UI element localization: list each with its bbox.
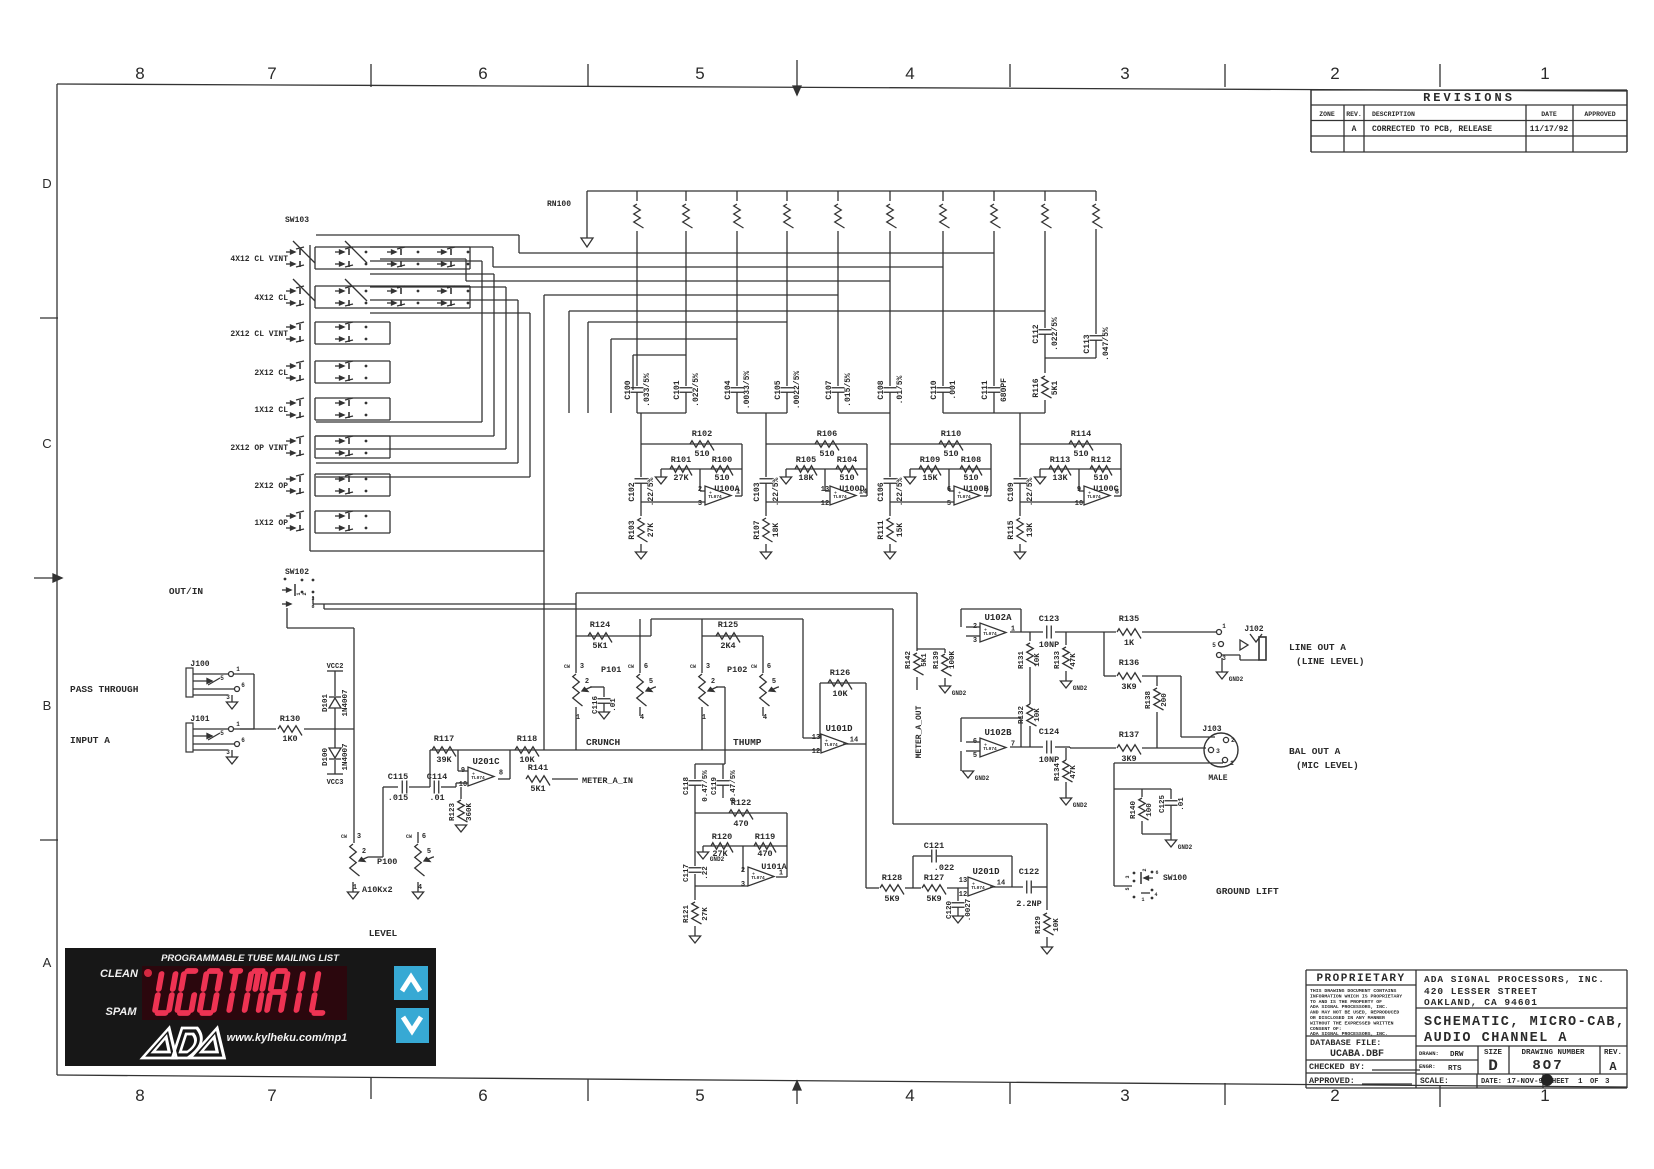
- svg-text:R141: R141: [528, 763, 548, 773]
- svg-text:3: 3: [1222, 655, 1226, 662]
- svg-text:R139: R139: [933, 651, 941, 670]
- svg-text:470: 470: [757, 849, 772, 859]
- svg-text:U100C: U100C: [1093, 484, 1119, 494]
- svg-text:1N4007: 1N4007: [342, 689, 350, 716]
- svg-text:510: 510: [714, 473, 729, 483]
- svg-text:2X12 CL: 2X12 CL: [254, 369, 288, 378]
- svg-text:(MIC LEVEL): (MIC LEVEL): [1296, 760, 1359, 771]
- svg-text:0.47/5%: 0.47/5%: [702, 770, 710, 802]
- svg-text:200: 200: [1161, 693, 1169, 707]
- svg-text:12: 12: [821, 500, 829, 508]
- svg-text:6: 6: [478, 1086, 487, 1105]
- svg-text:+: +: [834, 491, 837, 497]
- svg-text:+: +: [972, 882, 975, 888]
- svg-text:C105: C105: [774, 380, 783, 399]
- svg-text:2X12 OP: 2X12 OP: [254, 482, 288, 491]
- svg-text:R133: R133: [1054, 651, 1062, 670]
- svg-text:B: B: [43, 698, 52, 713]
- svg-text:HEET: HEET: [1552, 1078, 1569, 1086]
- svg-text:GND2: GND2: [975, 775, 990, 782]
- svg-text:27K: 27K: [702, 907, 710, 921]
- svg-text:4X12 CL VINT: 4X12 CL VINT: [230, 255, 288, 264]
- svg-text:CORRECTED TO PCB, RELEASE: CORRECTED TO PCB, RELEASE: [1372, 125, 1492, 134]
- svg-text:BAL OUT A: BAL OUT A: [1289, 746, 1341, 757]
- svg-text:.01: .01: [1178, 797, 1186, 811]
- svg-text:R135: R135: [1119, 614, 1139, 624]
- svg-text:39K: 39K: [436, 755, 452, 765]
- svg-text:3: 3: [226, 694, 230, 701]
- svg-text:3: 3: [1120, 1086, 1129, 1105]
- svg-text:5: 5: [1125, 887, 1131, 890]
- svg-text:C104: C104: [724, 380, 733, 399]
- svg-text:R128: R128: [882, 873, 902, 883]
- svg-text:C108: C108: [877, 380, 886, 399]
- svg-text:U100A: U100A: [714, 484, 740, 494]
- svg-text:5: 5: [220, 730, 224, 737]
- svg-text:GND2: GND2: [1073, 685, 1088, 692]
- svg-text:DRW: DRW: [1450, 1051, 1464, 1059]
- svg-text:5K1: 5K1: [530, 784, 545, 794]
- svg-text:DATABASE FILE:: DATABASE FILE:: [1310, 1038, 1381, 1048]
- svg-text:10K: 10K: [1034, 653, 1042, 667]
- svg-text:+: +: [752, 872, 755, 878]
- svg-text:13: 13: [959, 877, 967, 885]
- svg-text:R126: R126: [830, 668, 850, 678]
- svg-text:C120: C120: [946, 901, 954, 920]
- svg-text:2: 2: [362, 848, 366, 856]
- svg-text:5K1: 5K1: [592, 641, 607, 651]
- svg-text:5: 5: [695, 64, 704, 83]
- svg-text:CW: CW: [690, 664, 696, 670]
- svg-text:100: 100: [1146, 803, 1154, 817]
- svg-text:.0033/5%: .0033/5%: [743, 371, 752, 410]
- svg-text:R120: R120: [712, 832, 732, 842]
- svg-text:D100: D100: [322, 748, 330, 767]
- svg-text:5: 5: [772, 678, 776, 686]
- svg-text:13: 13: [821, 486, 829, 494]
- svg-text:APPROVED: APPROVED: [1584, 111, 1615, 118]
- svg-text:1K0: 1K0: [282, 734, 297, 744]
- svg-text:.0022/5%: .0022/5%: [793, 371, 802, 410]
- svg-text:GND2: GND2: [1073, 802, 1088, 809]
- svg-text:510: 510: [943, 449, 958, 459]
- svg-text:R101: R101: [671, 455, 691, 465]
- svg-text:WITHOUT THE EXPRESSED WRITTEN: WITHOUT THE EXPRESSED WRITTEN: [1310, 1020, 1394, 1026]
- svg-text:C113: C113: [1083, 334, 1092, 353]
- svg-text:LINE OUT A: LINE OUT A: [1289, 642, 1346, 653]
- svg-text:R138: R138: [1145, 691, 1153, 710]
- svg-text:6: 6: [767, 663, 771, 671]
- svg-text:C109: C109: [1007, 482, 1016, 501]
- svg-text:13K: 13K: [1026, 523, 1035, 538]
- svg-text:10K: 10K: [832, 689, 848, 699]
- svg-text:PASS THROUGH: PASS THROUGH: [70, 684, 139, 695]
- svg-text:+: +: [1088, 491, 1091, 497]
- svg-text:.047/5%: .047/5%: [1102, 327, 1111, 361]
- svg-text:www.kylheku.com/mp1: www.kylheku.com/mp1: [227, 1032, 348, 1044]
- svg-text:510: 510: [819, 449, 834, 459]
- svg-text:2: 2: [1330, 1086, 1339, 1105]
- svg-text:C122: C122: [1019, 867, 1039, 877]
- svg-text:GND2: GND2: [952, 690, 967, 697]
- svg-text:R119: R119: [755, 832, 775, 842]
- svg-text:CW: CW: [751, 664, 757, 670]
- svg-text:ADA SIGNAL PROCESSORS, INC.: ADA SIGNAL PROCESSORS, INC.: [1424, 974, 1605, 985]
- svg-text:D: D: [42, 176, 51, 191]
- svg-text:A: A: [1352, 125, 1357, 134]
- svg-text:2: 2: [1231, 737, 1235, 744]
- svg-text:C110: C110: [930, 380, 939, 399]
- svg-text:510: 510: [694, 449, 709, 459]
- svg-text:U201C: U201C: [472, 757, 500, 767]
- svg-text:U101A: U101A: [761, 862, 787, 872]
- svg-text:SW102: SW102: [285, 568, 309, 577]
- svg-text:11/17/92: 11/17/92: [1530, 125, 1569, 134]
- svg-text:8: 8: [135, 1086, 144, 1105]
- svg-text:R117: R117: [434, 734, 454, 744]
- svg-text:.01/5%: .01/5%: [896, 375, 905, 404]
- svg-text:+: +: [958, 491, 961, 497]
- svg-text:10K: 10K: [1053, 918, 1061, 932]
- svg-text:INPUT A: INPUT A: [70, 735, 110, 746]
- svg-text:C107: C107: [825, 380, 834, 399]
- svg-text:3: 3: [580, 663, 584, 671]
- svg-text:C123: C123: [1039, 614, 1059, 624]
- svg-text:R140: R140: [1130, 801, 1138, 820]
- svg-text:2K4: 2K4: [720, 641, 735, 651]
- svg-text:5K9: 5K9: [884, 894, 899, 904]
- svg-text:17-NOV-9: 17-NOV-9: [1507, 1078, 1544, 1086]
- svg-text:A10Kx2: A10Kx2: [362, 885, 393, 895]
- svg-text:7: 7: [267, 1086, 276, 1105]
- svg-text:5: 5: [947, 500, 951, 508]
- svg-text:U102A: U102A: [984, 613, 1012, 623]
- svg-text:6: 6: [241, 737, 245, 744]
- svg-text:GND2: GND2: [710, 856, 725, 863]
- svg-text:4: 4: [905, 64, 914, 83]
- svg-text:REV.: REV.: [1346, 111, 1362, 118]
- svg-text:TO AND IS THE PROPERTY OF: TO AND IS THE PROPERTY OF: [1310, 999, 1382, 1005]
- svg-text:DRAWING NUMBER: DRAWING NUMBER: [1521, 1049, 1585, 1057]
- svg-text:PROPRIETARY: PROPRIETARY: [1316, 973, 1405, 985]
- svg-text:470: 470: [733, 819, 748, 829]
- svg-text:2X12 CL VINT: 2X12 CL VINT: [230, 330, 288, 339]
- svg-text:ADA SIGNAL PROCESSORS, INC.: ADA SIGNAL PROCESSORS, INC.: [1310, 1004, 1388, 1010]
- svg-text:10NP: 10NP: [1039, 640, 1059, 650]
- svg-text:CW: CW: [628, 664, 634, 670]
- svg-text:A: A: [1609, 1060, 1617, 1074]
- svg-text:(LINE LEVEL): (LINE LEVEL): [1296, 656, 1364, 667]
- svg-text:OUT/IN: OUT/IN: [169, 586, 204, 597]
- svg-text:UCABA.DBF: UCABA.DBF: [1330, 1049, 1384, 1060]
- svg-text:2X12 OP VINT: 2X12 OP VINT: [230, 444, 288, 453]
- svg-text:13K: 13K: [1052, 473, 1068, 483]
- svg-text:INFORMATION WHICH IS PROPRIETA: INFORMATION WHICH IS PROPRIETARY: [1310, 993, 1402, 999]
- svg-text:+: +: [984, 743, 987, 749]
- svg-text:2: 2: [1142, 868, 1148, 871]
- svg-text:OF: OF: [1590, 1078, 1598, 1086]
- svg-text:6: 6: [422, 833, 426, 841]
- svg-text:3: 3: [741, 881, 745, 889]
- svg-text:.022/5%: .022/5%: [692, 373, 701, 407]
- svg-text:+: +: [709, 491, 712, 497]
- svg-text:GND2: GND2: [1178, 844, 1193, 851]
- svg-text:100K: 100K: [949, 651, 957, 670]
- svg-text:5: 5: [973, 752, 977, 760]
- svg-text:.022: .022: [934, 863, 954, 873]
- svg-text:3: 3: [973, 637, 977, 645]
- svg-text:3: 3: [1125, 875, 1131, 878]
- svg-text:RN100: RN100: [547, 200, 571, 209]
- svg-text:510: 510: [1093, 473, 1108, 483]
- svg-text:1X12 CL: 1X12 CL: [254, 406, 288, 415]
- svg-text:C119: C119: [711, 777, 719, 796]
- svg-text:MALE: MALE: [1208, 774, 1227, 783]
- svg-text:ENGR:: ENGR:: [1419, 1063, 1436, 1070]
- svg-text:U100B: U100B: [963, 484, 989, 494]
- svg-text:4: 4: [905, 1086, 914, 1105]
- svg-text:2: 2: [698, 486, 702, 494]
- svg-text:R112: R112: [1091, 455, 1111, 465]
- svg-text:R127: R127: [924, 873, 944, 883]
- svg-text:.022/5%: .022/5%: [1051, 317, 1060, 351]
- svg-text:14: 14: [997, 880, 1005, 888]
- svg-text:510: 510: [839, 473, 854, 483]
- svg-text:C115: C115: [388, 772, 408, 782]
- svg-text:R105: R105: [796, 455, 816, 465]
- svg-text:VCC2: VCC2: [327, 663, 344, 671]
- svg-text:P101: P101: [601, 665, 621, 675]
- svg-text:1: 1: [1222, 623, 1226, 630]
- svg-text:15K: 15K: [896, 523, 905, 538]
- svg-text:C: C: [42, 436, 51, 451]
- svg-text:CW: CW: [341, 834, 347, 840]
- svg-text:U100D: U100D: [839, 484, 865, 494]
- svg-text:.033/5%: .033/5%: [643, 373, 652, 407]
- svg-text:R131: R131: [1018, 651, 1026, 670]
- svg-text:12: 12: [812, 748, 820, 756]
- svg-text:D: D: [1488, 1057, 1498, 1075]
- svg-text:1: 1: [236, 721, 240, 728]
- svg-text:10: 10: [459, 781, 467, 789]
- svg-text:R102: R102: [692, 429, 712, 439]
- svg-text:7: 7: [267, 64, 276, 83]
- svg-text:1: 1: [1141, 897, 1144, 903]
- svg-text:U102B: U102B: [984, 728, 1012, 738]
- svg-text:8: 8: [311, 604, 314, 610]
- svg-text:2.2NP: 2.2NP: [1016, 899, 1042, 909]
- svg-text:0.47/5%: 0.47/5%: [730, 770, 738, 802]
- svg-text:R109: R109: [920, 455, 940, 465]
- svg-text:R129: R129: [1035, 916, 1043, 935]
- svg-text:R111: R111: [877, 520, 886, 539]
- svg-text:3: 3: [1216, 748, 1220, 755]
- svg-text:R137: R137: [1119, 730, 1139, 740]
- svg-text:1: 1: [1540, 1086, 1549, 1105]
- svg-text:.01: .01: [610, 698, 618, 712]
- svg-text:360K: 360K: [466, 803, 474, 822]
- svg-text:5: 5: [649, 678, 653, 686]
- svg-text:18K: 18K: [798, 473, 814, 483]
- svg-text:3: 3: [357, 833, 361, 841]
- svg-text:A: A: [43, 955, 52, 970]
- svg-text:47K: 47K: [1070, 653, 1078, 667]
- svg-text:RTS: RTS: [1448, 1065, 1462, 1073]
- svg-text:6: 6: [478, 64, 487, 83]
- svg-text:680PF: 680PF: [1000, 378, 1009, 402]
- svg-text:APPROVED:: APPROVED:: [1309, 1076, 1355, 1086]
- svg-text:VCC3: VCC3: [327, 779, 344, 787]
- svg-text:2: 2: [1330, 64, 1339, 83]
- svg-text:5K9: 5K9: [926, 894, 941, 904]
- svg-text:R104: R104: [837, 455, 857, 465]
- svg-text:14: 14: [850, 737, 858, 745]
- svg-text:1: 1: [1578, 1078, 1583, 1086]
- svg-text:OAKLAND, CA 94601: OAKLAND, CA 94601: [1424, 997, 1538, 1008]
- svg-text:GND2: GND2: [1229, 676, 1244, 683]
- svg-text:2: 2: [302, 592, 308, 595]
- svg-text:SCHEMATIC, MICRO-CAB,: SCHEMATIC, MICRO-CAB,: [1424, 1015, 1626, 1030]
- svg-text:C103: C103: [753, 482, 762, 501]
- svg-text:R115: R115: [1007, 520, 1016, 539]
- svg-text:R118: R118: [517, 734, 537, 744]
- svg-text:1K: 1K: [1124, 638, 1135, 648]
- svg-text:.0027: .0027: [965, 899, 973, 922]
- svg-text:ADA SIGNAL PROCESSORS, INC.: ADA SIGNAL PROCESSORS, INC.: [1310, 1031, 1388, 1037]
- svg-text:REV.: REV.: [1604, 1049, 1622, 1057]
- svg-text:6: 6: [947, 486, 951, 494]
- svg-text:U101D: U101D: [825, 724, 853, 734]
- svg-text:R121: R121: [683, 905, 691, 924]
- svg-text:R132: R132: [1018, 706, 1026, 725]
- svg-text:R114: R114: [1071, 429, 1091, 439]
- svg-text:CONSENT OF:: CONSENT OF:: [1310, 1026, 1342, 1032]
- svg-text:.015/5%: .015/5%: [844, 373, 853, 407]
- svg-text:C117: C117: [683, 864, 691, 882]
- svg-text:27K: 27K: [647, 523, 656, 538]
- svg-text:J102: J102: [1244, 625, 1263, 634]
- svg-text:R142: R142: [905, 651, 913, 670]
- svg-text:3: 3: [1120, 64, 1129, 83]
- svg-text:2: 2: [741, 867, 745, 875]
- svg-text:R110: R110: [941, 429, 961, 439]
- svg-text:THIS DRAWING DOCUMENT CONTAINS: THIS DRAWING DOCUMENT CONTAINS: [1310, 988, 1396, 994]
- svg-text:13: 13: [812, 734, 820, 742]
- svg-text:3: 3: [698, 500, 702, 508]
- svg-text:2: 2: [711, 678, 715, 686]
- svg-text:+: +: [984, 628, 987, 634]
- svg-text:6: 6: [241, 682, 245, 689]
- svg-text:P100: P100: [377, 857, 397, 867]
- svg-text:R107: R107: [753, 520, 762, 539]
- svg-text:R136: R136: [1119, 658, 1139, 668]
- svg-text:8: 8: [499, 770, 503, 778]
- svg-text:6: 6: [644, 663, 648, 671]
- svg-text:12: 12: [959, 891, 967, 899]
- svg-text:+: +: [825, 739, 828, 745]
- svg-text:DATE:: DATE:: [1481, 1078, 1502, 1086]
- svg-text:C100: C100: [624, 380, 633, 399]
- svg-text:5: 5: [427, 848, 431, 856]
- svg-text:GROUND LIFT: GROUND LIFT: [1216, 886, 1279, 897]
- svg-text:5: 5: [1212, 642, 1216, 649]
- svg-text:1: 1: [1230, 760, 1234, 767]
- svg-text:C112: C112: [1032, 324, 1041, 343]
- svg-text:R125: R125: [718, 620, 738, 630]
- svg-text:DATE: DATE: [1541, 111, 1557, 118]
- svg-text:C111: C111: [981, 380, 990, 399]
- svg-text:R100: R100: [712, 455, 732, 465]
- svg-text:5K1: 5K1: [1051, 381, 1060, 396]
- svg-text:R106: R106: [817, 429, 837, 439]
- svg-text:OR DISCLOSED IN ANY MANNER: OR DISCLOSED IN ANY MANNER: [1310, 1015, 1385, 1021]
- svg-text:METER_A_IN: METER_A_IN: [582, 776, 633, 786]
- svg-text:R123: R123: [449, 803, 457, 822]
- svg-text:3K9: 3K9: [1121, 682, 1136, 692]
- svg-text:AND MAY NOT BE USED, REPRODUCE: AND MAY NOT BE USED, REPRODUCED: [1310, 1010, 1399, 1016]
- svg-text:P102: P102: [727, 665, 747, 675]
- svg-text:SPAM: SPAM: [106, 1006, 138, 1018]
- svg-text:9: 9: [1077, 486, 1081, 494]
- svg-text:CW: CW: [564, 664, 570, 670]
- svg-text:C102: C102: [628, 482, 637, 501]
- svg-text:420 LESSER STREET: 420 LESSER STREET: [1424, 986, 1538, 997]
- svg-text:U201D: U201D: [972, 867, 1000, 877]
- svg-text:C125: C125: [1159, 795, 1167, 814]
- svg-text:C121: C121: [924, 841, 944, 851]
- svg-text:3: 3: [1605, 1078, 1610, 1086]
- svg-text:47K: 47K: [1070, 765, 1078, 779]
- svg-text:R108: R108: [961, 455, 981, 465]
- svg-text:10: 10: [1075, 500, 1083, 508]
- svg-text:CW: CW: [406, 834, 412, 840]
- svg-text:REVISIONS: REVISIONS: [1423, 91, 1515, 105]
- svg-text:.22: .22: [702, 866, 710, 880]
- svg-text:18K: 18K: [772, 523, 781, 538]
- svg-text:R116: R116: [1032, 378, 1041, 397]
- svg-text:1: 1: [236, 666, 240, 673]
- svg-text:1N4007: 1N4007: [342, 743, 350, 770]
- svg-text:R134: R134: [1054, 763, 1062, 782]
- svg-text:R124: R124: [590, 620, 610, 630]
- svg-text:4: 4: [1154, 892, 1157, 898]
- svg-text:510: 510: [1073, 449, 1088, 459]
- svg-text:.001: .001: [949, 380, 958, 399]
- svg-text:.015: .015: [388, 793, 408, 803]
- svg-text:DRAWN:: DRAWN:: [1419, 1050, 1439, 1057]
- svg-text:SCALE:: SCALE:: [1420, 1077, 1449, 1086]
- svg-text:PROGRAMMABLE TUBE MAILING LIST: PROGRAMMABLE TUBE MAILING LIST: [161, 953, 340, 964]
- svg-text:8O7: 8O7: [1532, 1058, 1563, 1074]
- svg-text:.01: .01: [429, 793, 444, 803]
- svg-text:R130: R130: [280, 714, 300, 724]
- svg-text:C124: C124: [1039, 727, 1059, 737]
- svg-text:15K: 15K: [922, 473, 938, 483]
- svg-text:R122: R122: [731, 798, 751, 808]
- svg-text:6: 6: [1155, 870, 1158, 876]
- svg-text:CLEAN: CLEAN: [100, 968, 139, 980]
- svg-text:C116: C116: [592, 696, 600, 715]
- svg-text:SW103: SW103: [285, 216, 309, 225]
- svg-text:5K1: 5K1: [921, 653, 929, 667]
- svg-text:LEVEL: LEVEL: [369, 928, 398, 939]
- svg-text:C106: C106: [877, 482, 886, 501]
- svg-text:METER_A_OUT: METER_A_OUT: [915, 705, 924, 758]
- svg-text:27K: 27K: [673, 473, 689, 483]
- svg-text:THUMP: THUMP: [733, 737, 762, 748]
- svg-text:5: 5: [220, 675, 224, 682]
- svg-text:2: 2: [585, 678, 589, 686]
